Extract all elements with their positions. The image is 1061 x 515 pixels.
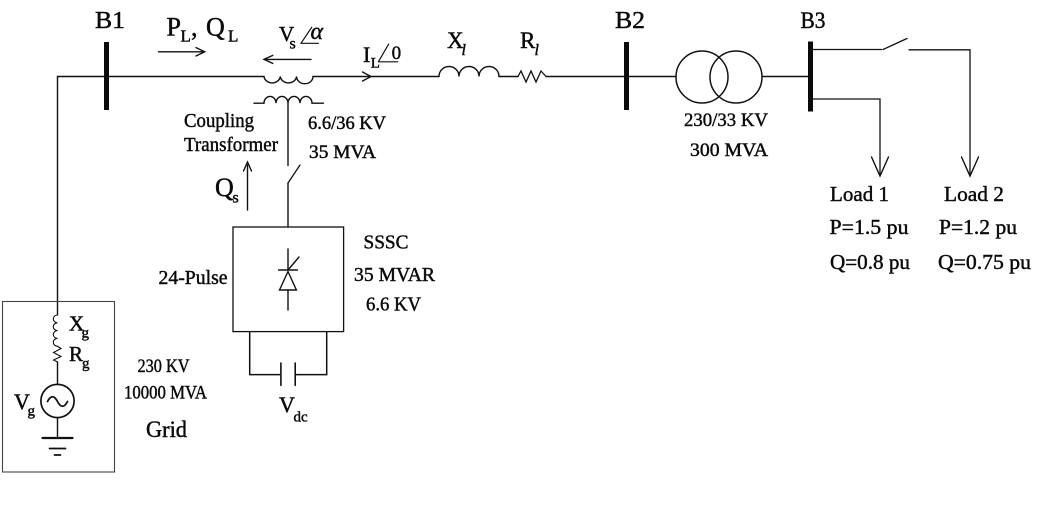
svg-text:P: P [167, 13, 181, 42]
svg-text:Q=0.8 pu: Q=0.8 pu [830, 250, 910, 274]
svg-text:dc: dc [294, 410, 309, 426]
svg-text:35 MVAR: 35 MVAR [354, 264, 436, 286]
bus B1 [104, 42, 109, 110]
arrow P_L Q_L flow right [159, 48, 205, 56]
wire main line X_l to R_l [499, 76, 518, 78]
svg-text:230/33 KV: 230/33 KV [684, 110, 768, 131]
source V_g circle [41, 384, 74, 417]
label V_s angle alpha [279, 19, 324, 53]
inductor X_l [439, 67, 499, 77]
resistor R_l [518, 71, 546, 82]
svg-text:s: s [290, 36, 296, 53]
coupling transformer secondary winding [254, 96, 323, 103]
svg-text:B3: B3 [801, 8, 826, 33]
resistor R_g [54, 346, 62, 362]
arrow V_s pointing left [264, 55, 311, 63]
svg-text:g: g [82, 356, 90, 372]
capacitor C dc plate left [280, 363, 282, 385]
ground symbol [43, 438, 73, 455]
arrowhead load 1 [872, 157, 889, 176]
sine wave inside source [48, 397, 68, 407]
svg-text:P=1.2 pu: P=1.2 pu [939, 215, 1017, 239]
label X_l [447, 28, 467, 59]
svg-text:s: s [233, 190, 239, 207]
svg-text:Coupling: Coupling [184, 110, 254, 132]
arrowhead I_L on line [363, 72, 372, 81]
label V_dc [279, 392, 308, 426]
capacitor C dc plate right [294, 363, 296, 385]
bus B3 [808, 42, 813, 112]
svg-text:L: L [228, 27, 238, 46]
label R_l [520, 28, 540, 59]
svg-text:Load 1: Load 1 [830, 182, 889, 206]
label R_g [69, 342, 90, 372]
wire secondary down to switch [287, 103, 289, 165]
wire B3 top branch to switch [813, 49, 882, 51]
svg-text:B2: B2 [615, 8, 645, 34]
label Q_s [215, 173, 239, 207]
label X_g [69, 312, 90, 342]
svg-text:Q: Q [215, 173, 234, 202]
wire main line left segment [58, 77, 265, 316]
svg-text:35 MVA: 35 MVA [309, 142, 376, 163]
svg-text:6.6 KV: 6.6 KV [366, 294, 422, 316]
svg-text:B1: B1 [95, 8, 125, 34]
svg-text:Transformer: Transformer [184, 134, 278, 156]
svg-text:Load 2: Load 2 [944, 182, 1004, 206]
transformer T1 circle left [676, 51, 728, 103]
wire main line middle segment [313, 76, 439, 78]
wire SSSC box to capacitor right [297, 332, 327, 375]
wire R_g to source [57, 362, 59, 384]
label I_L angle 0 [363, 42, 401, 72]
svg-text:l: l [535, 42, 540, 59]
thyristor inside SSSC [279, 249, 299, 310]
label V_g [14, 389, 36, 420]
svg-text:Q=0.75 pu: Q=0.75 pu [938, 250, 1031, 274]
svg-text:230 KV: 230 KV [138, 356, 190, 377]
wire switch to SSSC box [287, 183, 289, 227]
svg-text:,: , [191, 13, 198, 42]
label Coupling Transformer [184, 110, 278, 156]
wire switch to load 2 corner [909, 50, 970, 174]
SSSC converter box U1 [233, 227, 344, 332]
svg-text:SSSC: SSSC [364, 232, 409, 254]
inductor X_g [53, 315, 57, 346]
svg-text:24-Pulse: 24-Pulse [159, 267, 228, 289]
arrow Q_s pointing up [244, 162, 252, 210]
svg-text:R: R [69, 342, 83, 366]
svg-text:10000 MVA: 10000 MVA [124, 383, 207, 404]
arrowhead load 2 [962, 157, 979, 176]
wire SSSC box to capacitor left [250, 332, 280, 375]
svg-text:g: g [28, 404, 36, 420]
wire B3 lower branch to load 1 [813, 99, 880, 174]
svg-text:L: L [371, 56, 380, 72]
svg-text:L: L [181, 27, 191, 46]
svg-text:l: l [462, 42, 467, 59]
svg-text:300 MVA: 300 MVA [690, 140, 768, 161]
bus B2 [624, 42, 629, 110]
wire main line R_l to transformer [546, 76, 676, 78]
coupling transformer primary winding (series, on line) [264, 77, 313, 84]
svg-text:0: 0 [392, 43, 402, 64]
wire transformer to B3 [762, 76, 810, 78]
angle symbol of I_L [379, 44, 398, 62]
transformer T1 circle right [710, 51, 762, 103]
grid equivalent box [3, 302, 115, 473]
angle symbol of V_s [301, 27, 319, 43]
switch blade load 2 branch [883, 39, 907, 50]
svg-text:P=1.5 pu: P=1.5 pu [830, 215, 909, 239]
wire source to ground [57, 418, 59, 438]
svg-text:I: I [363, 42, 370, 67]
svg-text:g: g [82, 326, 90, 342]
svg-text:Grid: Grid [146, 417, 187, 442]
svg-text:Q: Q [206, 13, 225, 42]
label P_L , Q_L [167, 13, 239, 46]
svg-text:6.6/36 KV: 6.6/36 KV [308, 113, 386, 134]
switch blade SSSC branch [288, 165, 300, 183]
svg-text:α: α [311, 19, 324, 45]
